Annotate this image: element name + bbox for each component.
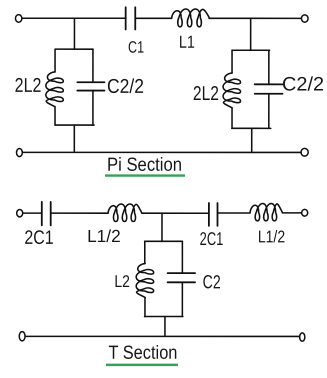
wire left branch lower (middle shunt)	[144, 297, 146, 316]
wire left branch lower (right shunt)	[231, 108, 233, 129]
wire right branch upper (right shunt)	[268, 50, 270, 84]
wire right branch upper (left shunt)	[92, 49, 94, 82]
wire right shunt lower stem	[251, 128, 253, 152]
wire middle shunt bottom connector	[145, 315, 183, 317]
wire right branch upper (middle shunt)	[181, 241, 183, 273]
inductor L1/2 (left)	[108, 204, 142, 222]
terminal top-left (T)	[17, 209, 23, 216]
wire left branch upper (middle shunt)	[144, 241, 146, 263]
wire left shunt bottom connector	[55, 124, 94, 126]
wire left branch upper (right shunt)	[231, 50, 233, 73]
wire right shunt top connector	[232, 49, 269, 51]
capacitor C2	[168, 273, 196, 282]
wire left shunt top connector	[55, 48, 93, 50]
terminal bottom-left (T)	[19, 332, 25, 341]
capacitor 2C1 (left)	[42, 202, 51, 225]
wire bottom rail (T)	[25, 335, 299, 337]
inductor L1	[172, 9, 210, 27]
svg-text:L1/2: L1/2	[258, 227, 285, 246]
svg-text:Pi Section: Pi Section	[107, 155, 182, 176]
terminal top-left	[15, 15, 21, 23]
terminal bottom-right (T)	[300, 333, 305, 341]
svg-text:L2: L2	[114, 272, 130, 291]
underline (Pi Section)	[105, 174, 185, 176]
capacitor 2C1 (right)	[209, 203, 218, 226]
wire top rail right	[209, 17, 301, 19]
inductor L1/2 (right)	[250, 204, 283, 221]
wire left shunt stem	[73, 18, 75, 49]
wire bottom rail (Pi)	[23, 151, 301, 153]
terminal bottom-left (Pi)	[17, 148, 23, 156]
wire between C1 and L1	[135, 17, 171, 19]
wire T rail seg1	[23, 212, 42, 214]
capacitor C1	[126, 7, 136, 29]
wire T rail seg4	[217, 212, 250, 214]
underline (T Section)	[106, 364, 178, 367]
svg-text:T Section: T Section	[108, 343, 177, 364]
wire right shunt stem	[250, 18, 252, 50]
capacitor C2/2 (left shunt)	[77, 82, 104, 90]
svg-text:C2/2: C2/2	[282, 74, 324, 96]
capacitor C2/2 (right shunt)	[255, 84, 283, 93]
wire right shunt bottom connector	[232, 127, 271, 129]
terminal top-right	[301, 15, 308, 22]
wire left branch lower	[54, 107, 56, 126]
svg-text:2L2: 2L2	[15, 75, 42, 97]
wire left shunt lower stem	[73, 125, 75, 152]
wire middle shunt lower stem	[164, 317, 166, 337]
inductor L2	[136, 263, 153, 297]
wire T rail seg5	[283, 212, 302, 214]
terminal bottom-right (Pi)	[301, 148, 308, 156]
terminal top-right (T)	[302, 209, 308, 216]
svg-text:2C1: 2C1	[24, 227, 53, 249]
wire left branch upper	[54, 49, 56, 72]
wire right branch lower (right shunt)	[268, 94, 270, 129]
svg-text:2C1: 2C1	[200, 228, 224, 249]
wire middle shunt stem	[161, 213, 163, 241]
wire right branch lower (left shunt)	[92, 91, 94, 125]
wire right branch lower (middle shunt)	[181, 282, 183, 316]
svg-text:C2: C2	[203, 272, 221, 293]
inductor 2L2 (left shunt)	[46, 72, 63, 107]
wire T rail seg2	[51, 212, 108, 214]
svg-text:2L2: 2L2	[193, 83, 219, 105]
svg-text:C2/2: C2/2	[107, 76, 144, 98]
wire middle shunt top connector	[145, 240, 183, 242]
svg-text:C1: C1	[128, 39, 144, 57]
wire T rail seg3	[142, 212, 209, 214]
svg-text:L1/2: L1/2	[87, 226, 121, 246]
wire top rail left	[22, 17, 125, 19]
svg-text:L1: L1	[179, 32, 195, 52]
inductor 2L2 (right shunt)	[223, 73, 240, 108]
